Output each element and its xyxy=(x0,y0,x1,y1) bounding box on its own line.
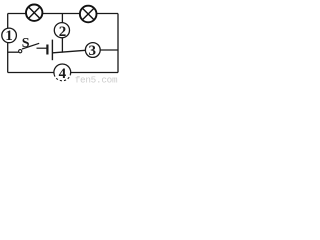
lamp L2 xyxy=(80,6,97,23)
wire node3 to right xyxy=(100,49,118,51)
switch S xyxy=(19,36,47,53)
svg-text:3: 3 xyxy=(88,43,96,59)
node 2 xyxy=(54,23,69,40)
node 3 xyxy=(85,43,100,59)
wire left vertical xyxy=(7,14,9,73)
svg-text:4: 4 xyxy=(59,66,67,82)
battery xyxy=(47,40,52,61)
wire node2 drop xyxy=(61,14,63,53)
node 1 xyxy=(2,28,17,44)
wire top xyxy=(8,13,118,15)
wire battery to node3 xyxy=(53,50,85,53)
lamp L1 xyxy=(26,5,42,21)
svg-text:fen5.com: fen5.com xyxy=(75,74,118,85)
svg-text:2: 2 xyxy=(59,24,67,40)
node 4 xyxy=(54,64,71,82)
wire middle left xyxy=(8,51,19,53)
wire bottom xyxy=(8,72,118,74)
svg-text:S: S xyxy=(22,36,30,51)
wire right vertical xyxy=(117,14,119,73)
svg-text:1: 1 xyxy=(5,28,13,44)
